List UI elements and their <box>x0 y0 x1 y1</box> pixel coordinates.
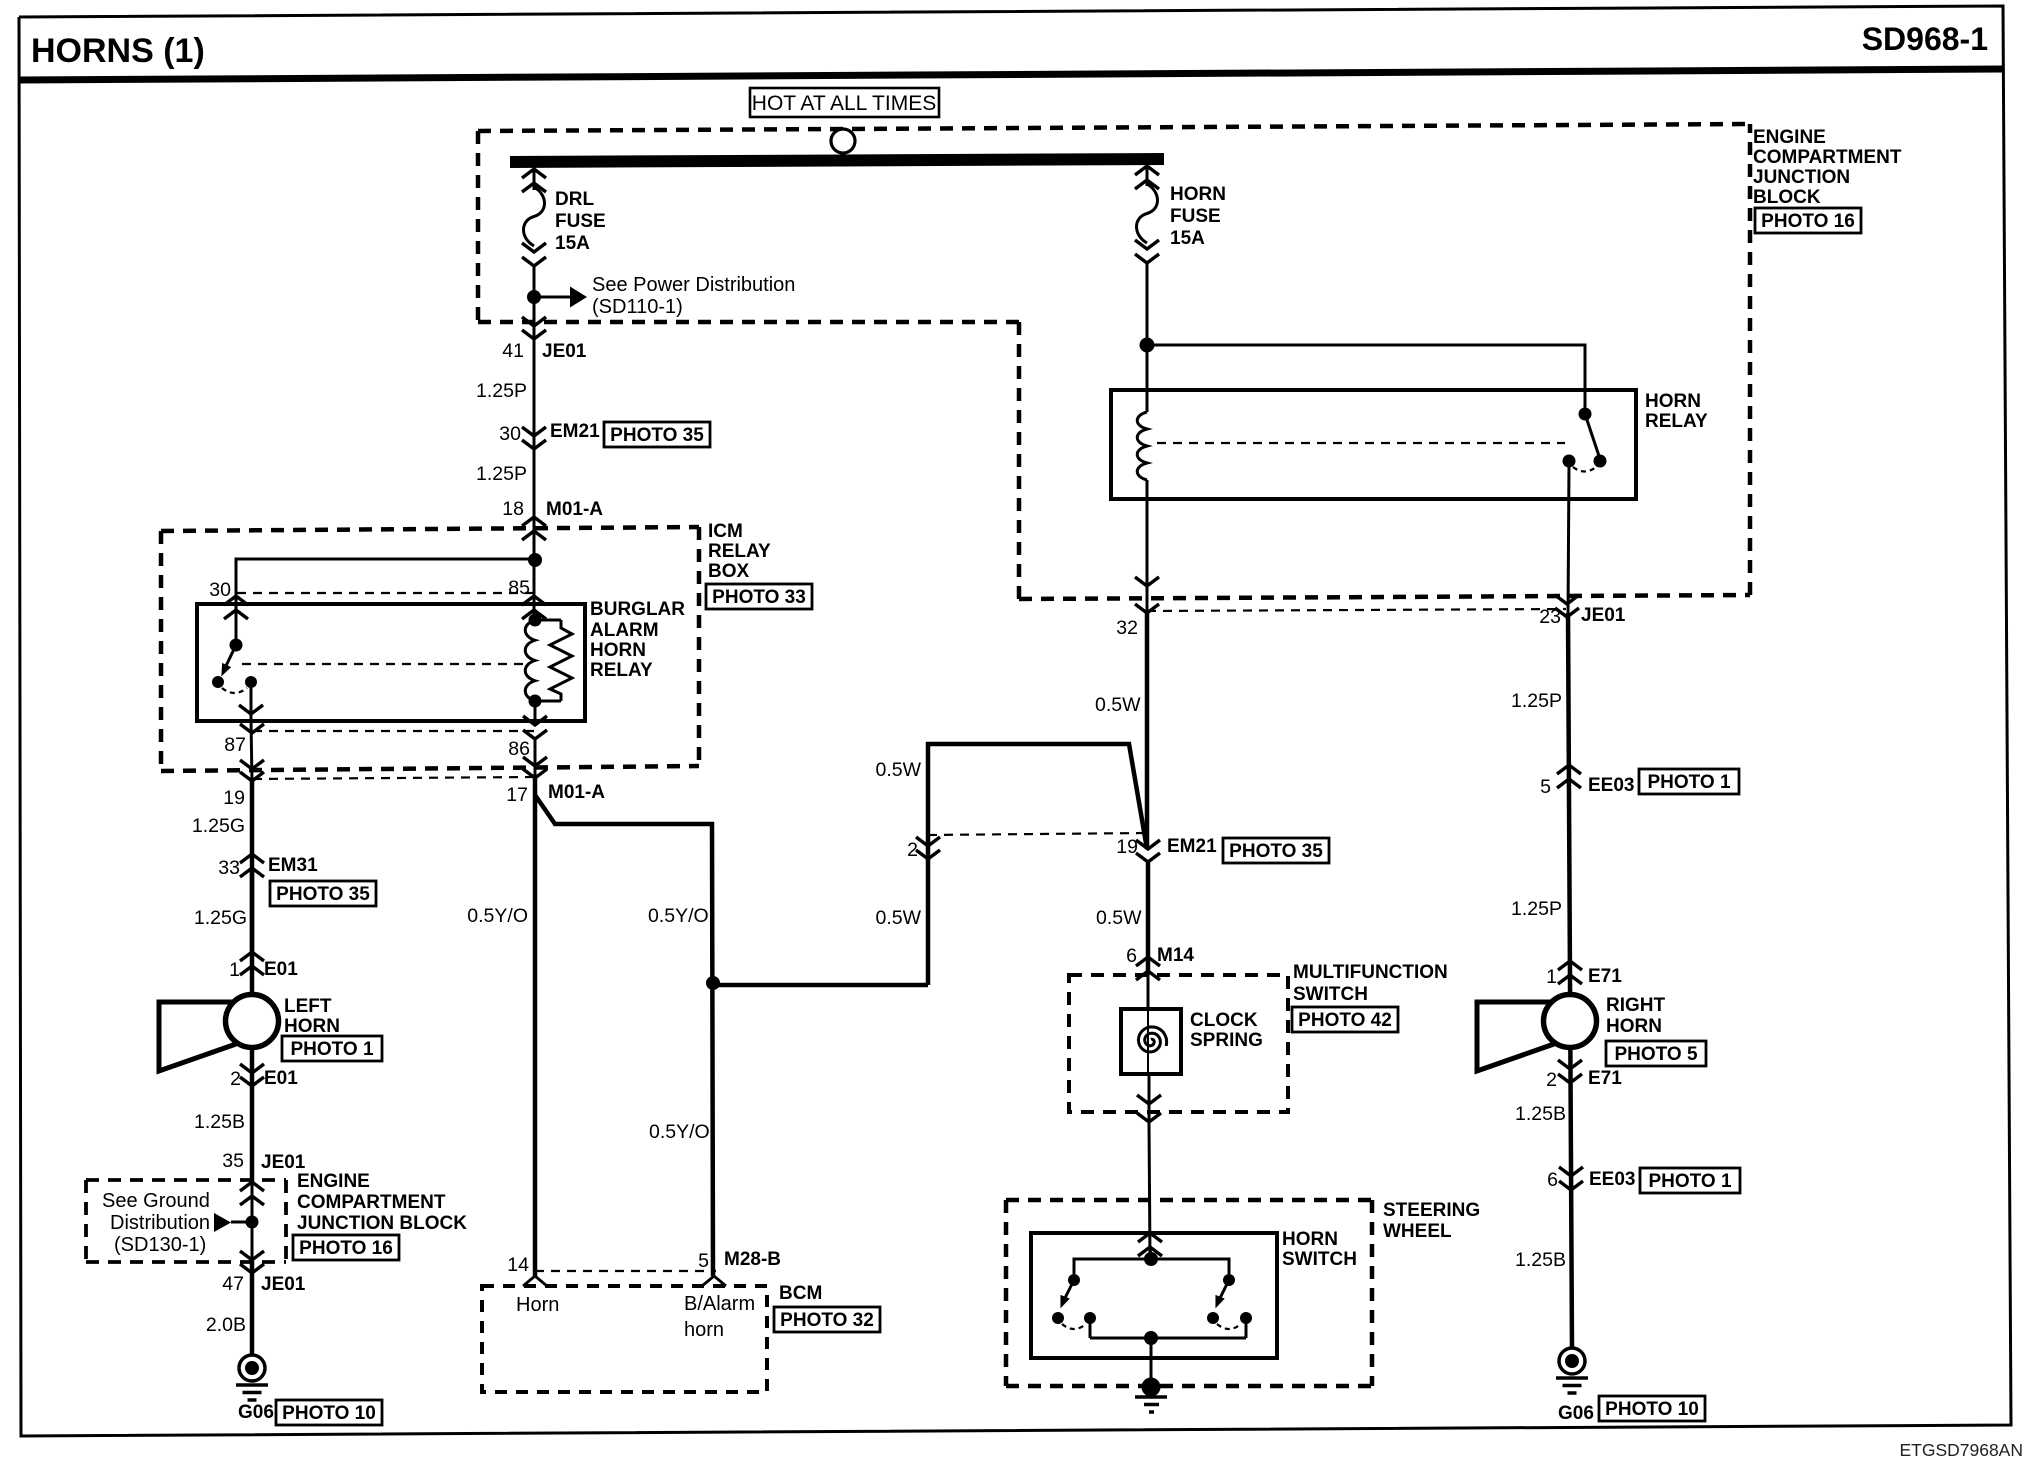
svg-text:2: 2 <box>907 839 918 861</box>
svg-text:5: 5 <box>698 1250 709 1272</box>
svg-text:JE01: JE01 <box>542 341 587 362</box>
svg-text:1.25P: 1.25P <box>476 380 527 402</box>
svg-text:86: 86 <box>508 738 530 760</box>
svg-text:PHOTO 16: PHOTO 16 <box>1761 211 1855 232</box>
svg-text:ALARM: ALARM <box>590 620 659 641</box>
svg-text:30: 30 <box>209 579 231 601</box>
svg-text:(SD110-1): (SD110-1) <box>592 296 683 318</box>
svg-text:SPRING: SPRING <box>1190 1030 1263 1051</box>
svg-text:PHOTO 10: PHOTO 10 <box>282 1403 376 1424</box>
svg-text:14: 14 <box>507 1254 529 1276</box>
svg-text:1.25G: 1.25G <box>194 907 247 929</box>
svg-text:HORN: HORN <box>590 640 646 661</box>
svg-text:EE03: EE03 <box>1589 1169 1635 1190</box>
svg-text:41: 41 <box>502 340 524 362</box>
svg-text:DRL: DRL <box>555 189 594 210</box>
svg-text:0.5Y/O: 0.5Y/O <box>648 905 709 927</box>
svg-text:BOX: BOX <box>708 561 750 582</box>
svg-text:E01: E01 <box>264 1068 298 1089</box>
svg-text:M01-A: M01-A <box>546 499 603 520</box>
svg-text:WHEEL: WHEEL <box>1383 1221 1452 1242</box>
svg-text:PHOTO 1: PHOTO 1 <box>1647 772 1730 793</box>
svg-text:47: 47 <box>222 1273 244 1295</box>
svg-text:PHOTO 1: PHOTO 1 <box>290 1039 373 1060</box>
svg-text:15A: 15A <box>1170 228 1205 249</box>
svg-text:BURGLAR: BURGLAR <box>590 599 685 620</box>
svg-text:COMPARTMENT: COMPARTMENT <box>297 1192 446 1213</box>
svg-text:EM21: EM21 <box>1167 836 1217 857</box>
svg-text:M28-B: M28-B <box>724 1249 781 1270</box>
svg-text:32: 32 <box>1116 617 1138 639</box>
svg-text:0.5Y/O: 0.5Y/O <box>467 905 528 927</box>
svg-text:87: 87 <box>224 734 246 756</box>
svg-text:EE03: EE03 <box>1588 775 1634 796</box>
svg-text:PHOTO 33: PHOTO 33 <box>712 587 806 608</box>
svg-text:HORN: HORN <box>1606 1016 1662 1037</box>
svg-text:0.5W: 0.5W <box>875 907 921 929</box>
svg-text:JE01: JE01 <box>1581 605 1626 626</box>
svg-text:G06: G06 <box>238 1402 274 1423</box>
svg-text:EM21: EM21 <box>550 421 600 442</box>
svg-text:HORNS (1): HORNS (1) <box>31 32 205 70</box>
svg-text:0.5Y/O: 0.5Y/O <box>649 1121 710 1143</box>
svg-text:0.5W: 0.5W <box>1095 694 1141 716</box>
svg-text:1.25G: 1.25G <box>192 815 245 837</box>
svg-text:BLOCK: BLOCK <box>1753 187 1821 208</box>
svg-text:RELAY: RELAY <box>590 660 653 681</box>
svg-text:PHOTO 5: PHOTO 5 <box>1614 1044 1697 1065</box>
svg-text:1.25P: 1.25P <box>476 463 527 485</box>
svg-text:HORN: HORN <box>1282 1229 1338 1250</box>
svg-text:15A: 15A <box>555 233 590 254</box>
svg-text:5: 5 <box>1540 776 1551 798</box>
svg-text:PHOTO 35: PHOTO 35 <box>276 884 370 905</box>
svg-text:(SD130-1): (SD130-1) <box>114 1234 206 1256</box>
svg-text:1.25B: 1.25B <box>1515 1249 1566 1271</box>
svg-text:JE01: JE01 <box>261 1274 306 1295</box>
svg-text:ENGINE: ENGINE <box>1753 127 1826 148</box>
svg-text:1.25B: 1.25B <box>1515 1103 1566 1125</box>
svg-text:2: 2 <box>230 1068 241 1090</box>
svg-text:G06: G06 <box>1558 1403 1594 1424</box>
svg-text:HORN: HORN <box>1170 184 1226 205</box>
svg-text:E71: E71 <box>1588 1068 1622 1089</box>
svg-text:2: 2 <box>1546 1069 1557 1091</box>
svg-text:MULTIFUNCTION: MULTIFUNCTION <box>1293 962 1448 983</box>
svg-text:PHOTO 35: PHOTO 35 <box>610 425 704 446</box>
svg-text:LEFT: LEFT <box>284 996 332 1017</box>
svg-text:JUNCTION: JUNCTION <box>1753 167 1850 188</box>
svg-text:1: 1 <box>1546 966 1557 988</box>
svg-text:M14: M14 <box>1157 945 1194 966</box>
svg-text:CLOCK: CLOCK <box>1190 1010 1258 1031</box>
svg-text:HORN: HORN <box>1645 391 1701 412</box>
svg-text:Horn: Horn <box>516 1294 559 1316</box>
svg-text:PHOTO 1: PHOTO 1 <box>1648 1171 1731 1192</box>
svg-text:33: 33 <box>218 857 240 879</box>
svg-text:6: 6 <box>1126 945 1137 967</box>
svg-text:19: 19 <box>1116 836 1138 858</box>
svg-text:Distribution: Distribution <box>110 1212 210 1234</box>
svg-text:85: 85 <box>508 577 530 599</box>
svg-text:PHOTO 16: PHOTO 16 <box>299 1238 393 1259</box>
svg-text:SD968-1: SD968-1 <box>1862 21 1988 57</box>
svg-text:PHOTO 32: PHOTO 32 <box>780 1310 874 1331</box>
svg-text:19: 19 <box>223 787 245 809</box>
svg-text:B/Alarm: B/Alarm <box>684 1293 755 1315</box>
svg-text:STEERING: STEERING <box>1383 1200 1480 1221</box>
svg-text:18: 18 <box>502 498 524 520</box>
svg-text:HOT AT ALL TIMES: HOT AT ALL TIMES <box>752 92 936 115</box>
svg-text:2.0B: 2.0B <box>206 1314 246 1336</box>
svg-text:6: 6 <box>1547 1169 1558 1191</box>
svg-text:E71: E71 <box>1588 966 1622 987</box>
svg-text:horn: horn <box>684 1319 724 1341</box>
svg-text:JUNCTION BLOCK: JUNCTION BLOCK <box>297 1213 467 1234</box>
svg-text:SWITCH: SWITCH <box>1282 1249 1357 1270</box>
svg-text:See Ground: See Ground <box>102 1190 210 1212</box>
svg-text:See Power Distribution: See Power Distribution <box>592 274 795 296</box>
svg-text:35: 35 <box>222 1150 244 1172</box>
svg-text:ETGSD7968AN: ETGSD7968AN <box>1899 1440 2023 1460</box>
svg-text:ENGINE: ENGINE <box>297 1171 370 1192</box>
svg-text:PHOTO 42: PHOTO 42 <box>1298 1010 1392 1031</box>
svg-text:1.25P: 1.25P <box>1511 690 1562 712</box>
svg-text:RELAY: RELAY <box>708 541 771 562</box>
svg-text:RELAY: RELAY <box>1645 411 1708 432</box>
svg-text:EM31: EM31 <box>268 855 318 876</box>
svg-text:COMPARTMENT: COMPARTMENT <box>1753 147 1902 168</box>
svg-text:JE01: JE01 <box>261 1152 306 1173</box>
svg-text:30: 30 <box>499 423 521 445</box>
svg-text:1: 1 <box>229 959 240 981</box>
svg-text:M01-A: M01-A <box>548 782 605 803</box>
svg-text:17: 17 <box>506 784 528 806</box>
svg-text:0.5W: 0.5W <box>875 759 921 781</box>
svg-text:HORN: HORN <box>284 1016 340 1037</box>
svg-text:E01: E01 <box>264 959 298 980</box>
svg-text:PHOTO 10: PHOTO 10 <box>1605 1399 1699 1420</box>
svg-text:PHOTO 35: PHOTO 35 <box>1229 841 1323 862</box>
svg-text:FUSE: FUSE <box>1170 206 1221 227</box>
svg-text:ICM: ICM <box>708 521 743 542</box>
svg-text:RIGHT: RIGHT <box>1606 995 1666 1016</box>
svg-text:1.25B: 1.25B <box>194 1111 245 1133</box>
svg-text:0.5W: 0.5W <box>1096 907 1142 929</box>
svg-text:SWITCH: SWITCH <box>1293 984 1368 1005</box>
svg-text:BCM: BCM <box>779 1283 822 1304</box>
svg-text:23: 23 <box>1539 606 1561 628</box>
svg-text:1.25P: 1.25P <box>1511 898 1562 920</box>
svg-text:FUSE: FUSE <box>555 211 606 232</box>
